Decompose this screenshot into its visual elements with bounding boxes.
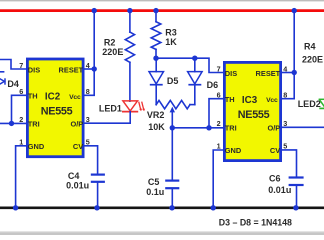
svg-text:D5: D5 bbox=[167, 76, 179, 86]
svg-text:220E: 220E bbox=[102, 47, 123, 57]
wire +V rail to IC3 Vcc pin 8 bbox=[281, 11, 294, 99]
wire to D5 anode bbox=[155, 58, 157, 71]
svg-text:TRI: TRI bbox=[28, 119, 40, 128]
svg-text:CV: CV bbox=[270, 146, 280, 155]
svg-text:TH: TH bbox=[28, 92, 38, 101]
svg-text:C4: C4 bbox=[68, 171, 80, 181]
svg-text:R4: R4 bbox=[304, 41, 316, 51]
svg-text:DIS: DIS bbox=[225, 69, 237, 78]
wire D6 cathode to VR2 right end bbox=[194, 85, 196, 105]
wire to IC2 DIS pin 7 (from left edge) bbox=[0, 60, 27, 70]
capacitor C5 bbox=[165, 181, 179, 189]
svg-text:Vcc: Vcc bbox=[266, 97, 278, 104]
svg-text:1K: 1K bbox=[165, 37, 177, 47]
svg-text:LED1: LED1 bbox=[99, 103, 122, 113]
wire IC2 TRI pin 2 (from left edge) bbox=[0, 122, 27, 124]
wire wiper junction to C5 bbox=[171, 128, 173, 180]
node +V rail / R2 bbox=[127, 8, 132, 13]
svg-text:R3: R3 bbox=[165, 27, 177, 37]
svg-text:D3 – D8 = 1N4148: D3 – D8 = 1N4148 bbox=[219, 217, 292, 227]
svg-text:D6: D6 bbox=[207, 80, 219, 90]
wire IC3 GND pin 1 to ground rail bbox=[213, 150, 224, 207]
svg-text:D4: D4 bbox=[7, 79, 19, 89]
svg-text:VR2: VR2 bbox=[147, 110, 165, 120]
svg-text:NE555: NE555 bbox=[238, 109, 270, 121]
node C6 on ground rail bbox=[293, 205, 298, 210]
svg-text:RESET: RESET bbox=[256, 69, 281, 78]
page top border bbox=[0, 0, 324, 1]
wire IC3 O/P pin 3 to LED2 (right edge) bbox=[281, 126, 324, 128]
wire wiper junction to IC3 TH/TRI bbox=[172, 127, 209, 129]
node IC2 RESET junction bbox=[92, 66, 97, 71]
wire IC2 GND pin 1 to ground rail bbox=[16, 146, 27, 207]
node D6 top junction bbox=[192, 56, 197, 61]
node IC2 GND on ground rail bbox=[13, 205, 18, 210]
wire +V supply rail (top, red) bbox=[0, 9, 324, 12]
wire LED1 cathode to IC2 O/P pin 3 bbox=[84, 112, 130, 124]
VR2 wiper arrow bbox=[170, 107, 175, 128]
diode D4 (partial, left edge) bbox=[0, 77, 5, 85]
node IC3 TH/TRI junction bbox=[206, 125, 211, 130]
wire to D6 anode bbox=[194, 58, 196, 71]
capacitor C4 bbox=[91, 175, 105, 182]
svg-text:O/P: O/P bbox=[267, 123, 280, 132]
svg-text:C5: C5 bbox=[148, 177, 160, 187]
svg-text:Vcc: Vcc bbox=[69, 94, 81, 101]
wire IC3 TH pin 6 to TRI junction bbox=[209, 99, 224, 128]
svg-text:GND: GND bbox=[225, 146, 242, 155]
svg-text:CV: CV bbox=[73, 142, 83, 151]
wire R2 to LED1 anode bbox=[129, 62, 131, 101]
svg-text:GND: GND bbox=[28, 142, 45, 151]
svg-text:DIS: DIS bbox=[28, 65, 40, 74]
wire C4 to ground rail bbox=[97, 182, 99, 207]
svg-text:0.1u: 0.1u bbox=[146, 187, 164, 197]
svg-text:10K: 10K bbox=[148, 122, 165, 132]
node IC3 GND on ground rail bbox=[211, 205, 216, 210]
IC3 NE555 body bbox=[224, 62, 280, 160]
wire IC3 TRI pin 2 bbox=[209, 127, 224, 129]
diode D5 bbox=[149, 72, 164, 85]
wire IC2 TH pin 6 to TRI junction bbox=[12, 95, 28, 123]
svg-text:R2: R2 bbox=[104, 37, 116, 47]
capacitor C6 bbox=[289, 178, 304, 186]
svg-text:220E: 220E bbox=[302, 55, 323, 65]
wire +V rail to R3 bbox=[155, 11, 157, 22]
wire IC3 RESET pin 4 to supply branch bbox=[281, 72, 294, 74]
wire C6 to ground rail bbox=[296, 185, 298, 207]
LED1 (red LED) bbox=[122, 101, 145, 112]
svg-text:O/P: O/P bbox=[70, 119, 83, 128]
svg-text:RESET: RESET bbox=[59, 65, 84, 74]
node +V rail / IC3 supply bbox=[292, 8, 297, 13]
wire C5 to ground rail bbox=[171, 188, 173, 207]
resistor R3 bbox=[151, 22, 161, 50]
wire R3 to D5/D6 node bbox=[155, 49, 157, 58]
wire stub to D4 (left edge) bbox=[0, 71, 4, 73]
resistor R2 bbox=[125, 32, 134, 62]
wire 0V ground rail (bottom, black) bbox=[0, 206, 324, 209]
svg-text:IC3: IC3 bbox=[242, 95, 258, 106]
node +V rail / IC2 supply bbox=[92, 8, 97, 13]
LED2 (green LED, partial at right edge) bbox=[319, 99, 324, 108]
node TH/TRI junction of IC2 bbox=[9, 121, 14, 126]
wire IC2 CV pin 5 to C4 bbox=[84, 146, 98, 174]
svg-text:0.01u: 0.01u bbox=[268, 185, 291, 195]
wire +V rail to IC2 Vcc pin 8 bbox=[84, 11, 94, 96]
wire IC3 CV pin 5 to C6 bbox=[281, 150, 297, 177]
node +V rail / R3 bbox=[153, 8, 158, 13]
wire VR2 track to D6 branch bbox=[190, 104, 195, 106]
node C5 on ground rail bbox=[169, 205, 174, 210]
wire +V rail to R2 bbox=[129, 11, 131, 32]
wire D5-D6 top rail to IC3 DIS pin 7 bbox=[156, 58, 224, 72]
svg-text:7: 7 bbox=[217, 64, 221, 73]
svg-text:TRI: TRI bbox=[225, 123, 237, 132]
wire D5 cathode to VR2 left end bbox=[155, 85, 157, 105]
IC2 NE555 timer body bbox=[27, 59, 83, 157]
node IC3 RESET junction bbox=[292, 70, 297, 75]
diode D6 bbox=[188, 72, 203, 85]
node VR2 wiper / timing net bbox=[170, 125, 175, 130]
node C4 on ground rail bbox=[94, 205, 99, 210]
svg-text:C6: C6 bbox=[269, 174, 281, 184]
svg-text:0.01u: 0.01u bbox=[66, 181, 89, 191]
page bottom border bbox=[0, 231, 324, 232]
svg-text:2: 2 bbox=[217, 119, 221, 128]
node R3 / D5 / DIS net bbox=[153, 56, 158, 61]
svg-text:LED2: LED2 bbox=[298, 99, 321, 109]
potentiometer VR2 track bbox=[156, 100, 190, 108]
svg-text:NE555: NE555 bbox=[41, 105, 73, 117]
svg-text:TH: TH bbox=[225, 95, 235, 104]
wire IC2 RESET pin 4 to supply branch bbox=[84, 68, 94, 70]
svg-text:IC2: IC2 bbox=[45, 91, 61, 102]
